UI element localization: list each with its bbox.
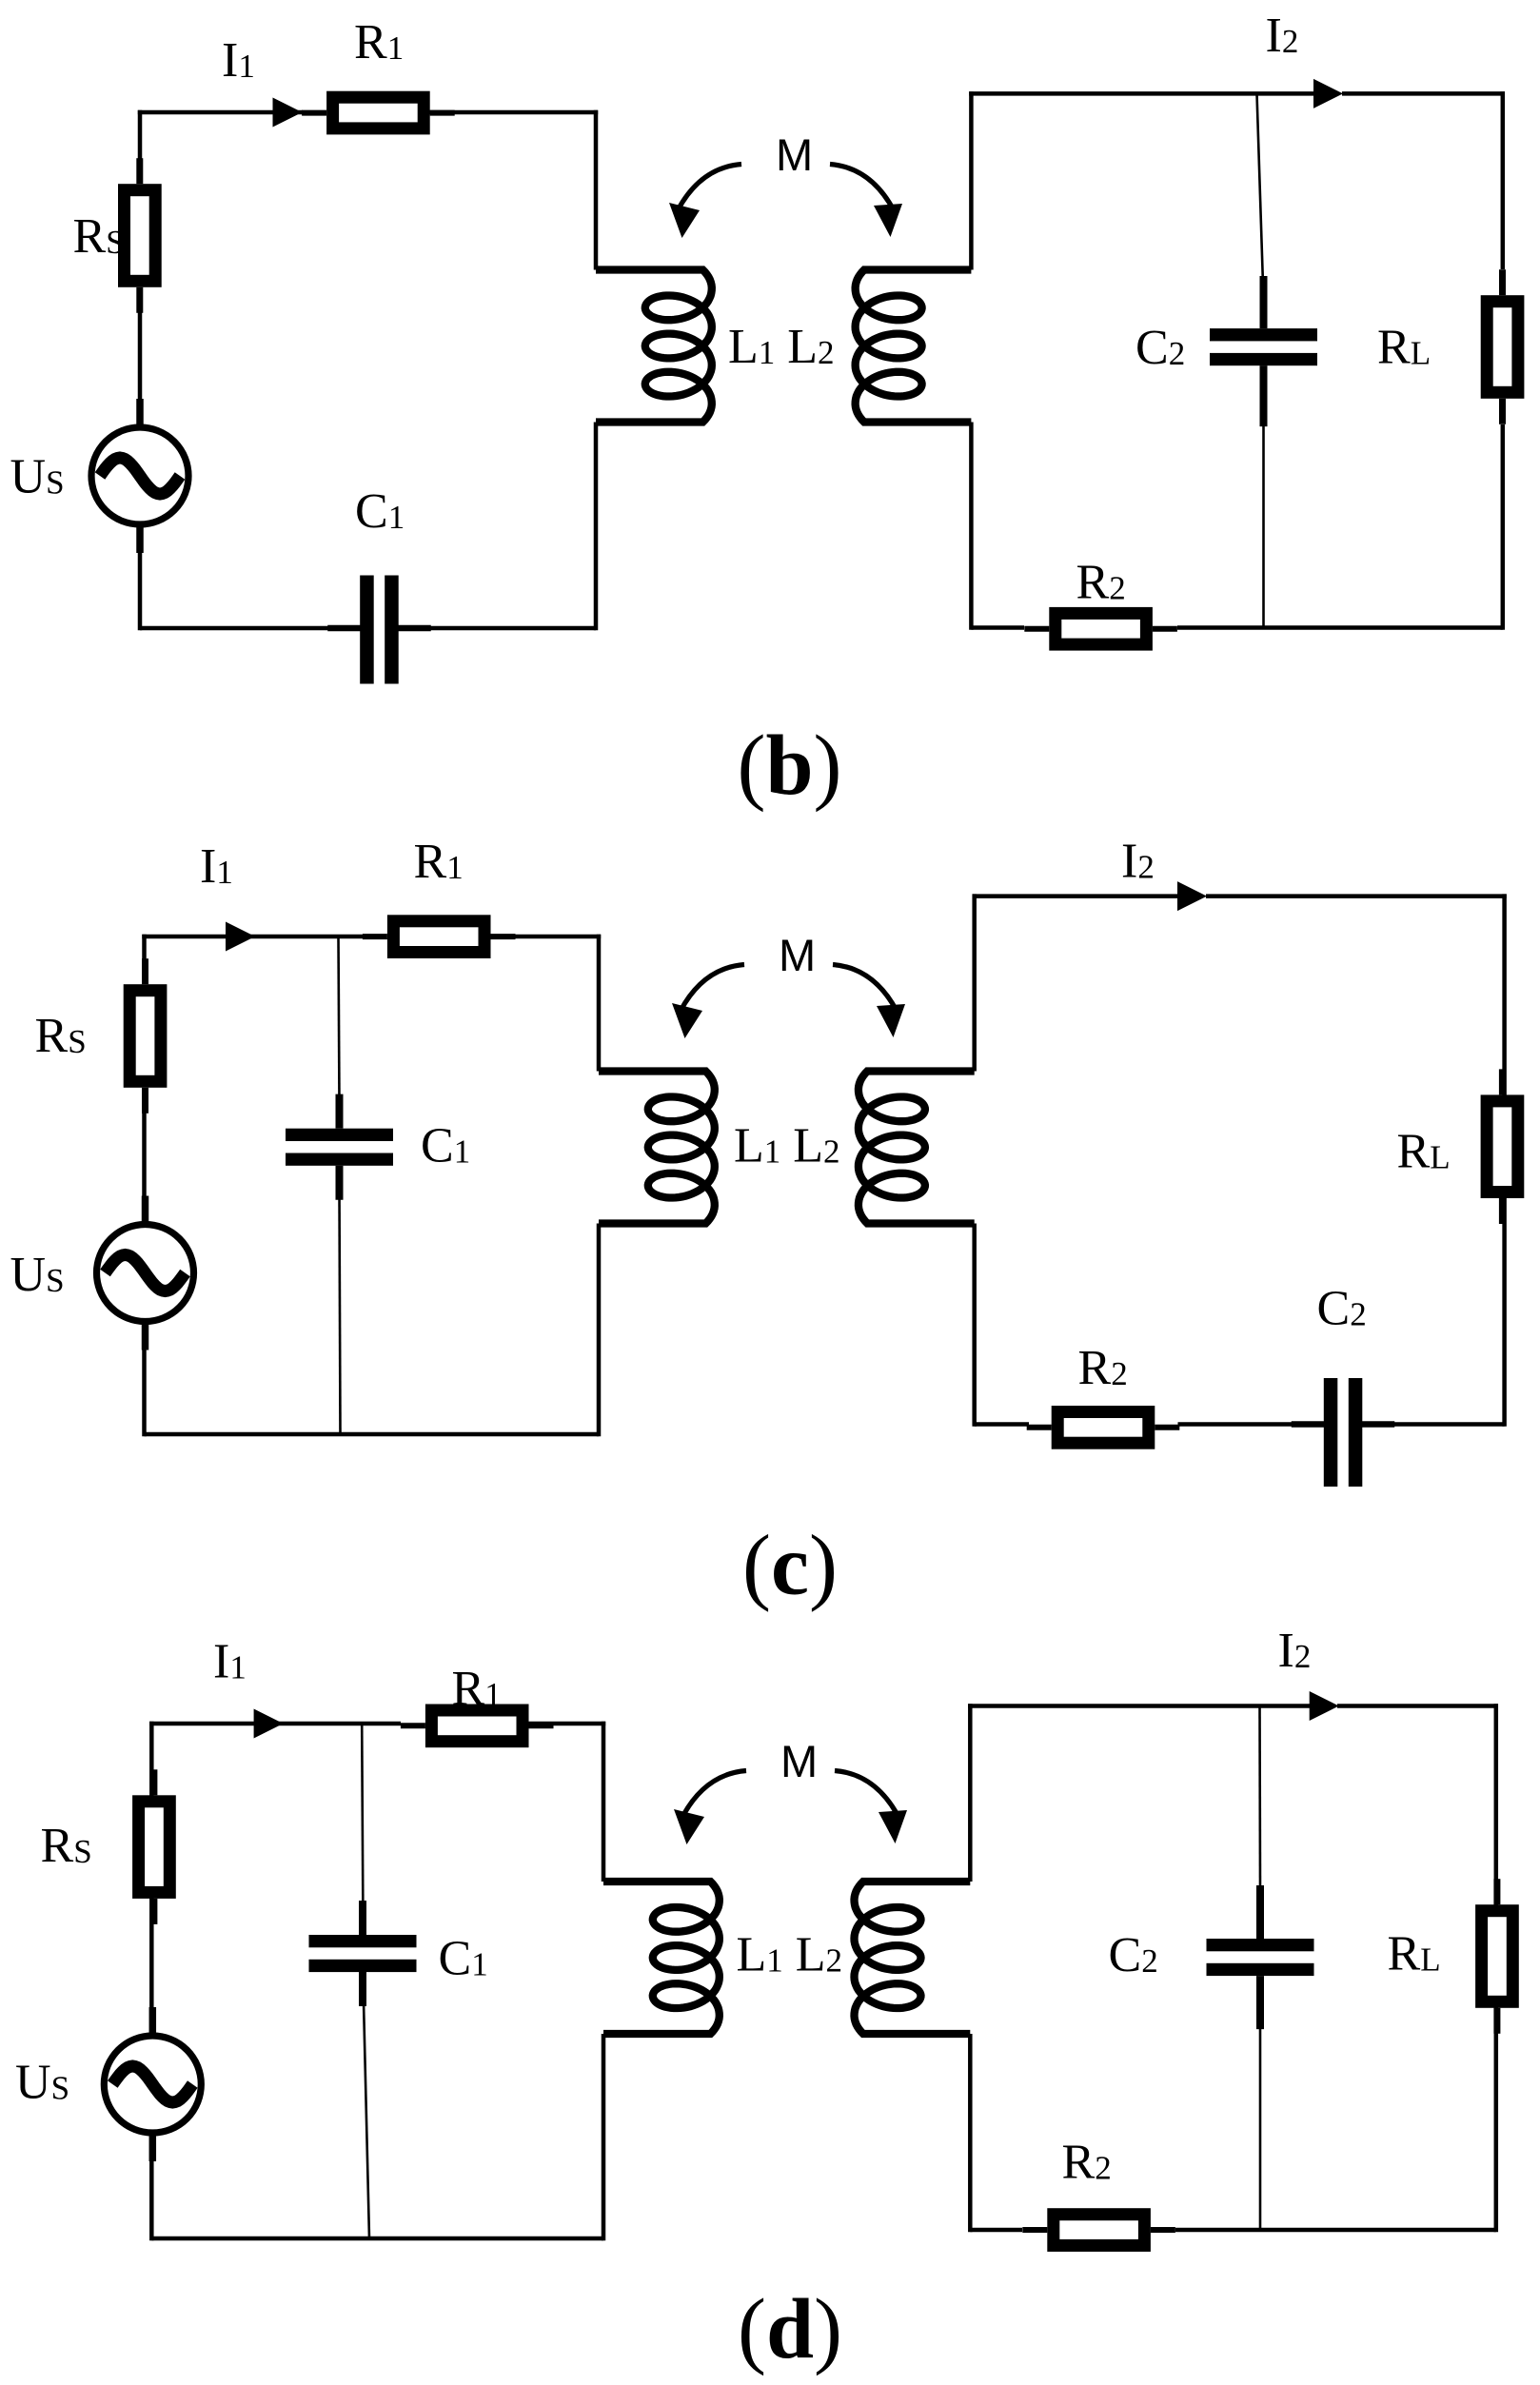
inductor L2 (d)	[855, 1882, 971, 2034]
branch wire C2 (b)	[1257, 93, 1264, 300]
wire (b) secondary right	[1501, 91, 1506, 269]
wire (d) secondary top	[968, 1704, 1310, 1708]
wire (c) primary bottom	[145, 1432, 600, 1437]
wire (d) secondary bottom	[970, 2228, 1022, 2233]
current arrow I1 (d)	[254, 1709, 284, 1739]
svg-text:(c): (c)	[742, 1519, 838, 1613]
wire (c) secondary left	[972, 894, 977, 1071]
branch wire C1 (c)	[339, 936, 340, 1104]
svg-text:M: M	[780, 1736, 818, 1786]
inductor L1 (b)	[596, 270, 712, 423]
inductor L1 (d)	[603, 1882, 720, 2034]
wire (d) primary top	[149, 1722, 284, 1726]
resistor R2 (d)	[1054, 2215, 1145, 2246]
inductor L2 (c)	[859, 1072, 975, 1224]
current arrow I2 (c)	[1177, 881, 1207, 911]
current arrow I1 (c)	[226, 922, 255, 952]
capacitor C2 (b)	[1210, 328, 1317, 341]
source US (d)	[104, 2036, 201, 2133]
resistor R1 (d)	[431, 1710, 523, 1742]
svg-text:(b): (b)	[737, 719, 841, 813]
resistor RL (c)	[1487, 1101, 1518, 1192]
capacitor C1 (d)	[309, 1935, 417, 1947]
capacitor C2 (d)	[1207, 1939, 1314, 1951]
resistor RL (d)	[1482, 1911, 1513, 2002]
capacitor C2 (c)	[1324, 1378, 1338, 1487]
wire (c) primary top	[142, 935, 255, 939]
current arrow I2 (b)	[1313, 79, 1343, 108]
wire (d) primary right	[602, 1722, 606, 1882]
wire (b) secondary top	[969, 91, 1314, 96]
inductor L1 (c)	[599, 1072, 715, 1224]
capacitor C1 (b)	[360, 576, 374, 684]
wire (c) primary left	[142, 935, 147, 984]
wire (b) secondary bottom	[971, 625, 1024, 630]
wire (b) secondary left	[969, 91, 974, 269]
svg-text:(d): (d)	[738, 2282, 842, 2376]
wire (c) secondary right	[1502, 894, 1507, 1094]
wire (c) secondary bottom	[975, 1422, 1029, 1427]
wire (b) primary top	[138, 110, 303, 115]
wire (d) primary left	[149, 1722, 154, 1796]
wire (b) primary right	[594, 110, 599, 270]
resistor RL (b)	[1487, 302, 1518, 393]
resistor R2 (b)	[1056, 613, 1147, 644]
resistor RS (d)	[139, 1802, 170, 1893]
wire (c) secondary top	[973, 894, 1179, 898]
branch wire C2 (d)	[1258, 1706, 1261, 1886]
resistor R2 (c)	[1057, 1412, 1149, 1444]
wire (d) secondary left	[968, 1704, 973, 1882]
resistor RS (c)	[129, 991, 161, 1082]
wire (b) primary left	[138, 110, 143, 184]
wire (d) secondary right	[1494, 1704, 1499, 1904]
wire (d) primary bottom	[151, 2237, 603, 2241]
resistor RS (b)	[125, 190, 156, 282]
inductor L2 (b)	[856, 270, 972, 423]
wire (b) primary bottom	[140, 626, 335, 631]
branch wire C1 (d)	[362, 1724, 363, 1929]
capacitor C1 (c)	[286, 1129, 393, 1141]
current arrow I1 (b)	[273, 98, 303, 128]
svg-text:M: M	[776, 129, 813, 180]
resistor R1 (c)	[393, 921, 484, 953]
source US (b)	[91, 427, 188, 524]
svg-text:M: M	[779, 930, 816, 980]
current arrow I2 (d)	[1310, 1691, 1339, 1721]
resistor R1 (b)	[333, 97, 424, 128]
source US (c)	[97, 1225, 194, 1322]
wire (c) primary right	[597, 935, 602, 1072]
